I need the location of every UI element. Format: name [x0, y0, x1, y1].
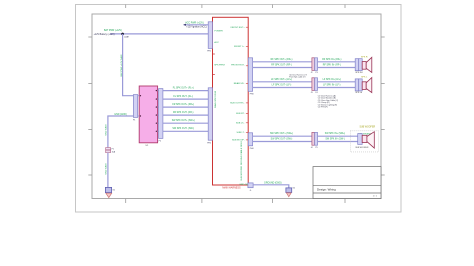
svg-text:PH4: PH4: [250, 148, 254, 150]
svg-text:PH1: PH1: [207, 50, 211, 52]
speaker SUB: [355, 132, 374, 150]
wire RF- left: [253, 67, 312, 69]
wire RF- right: [318, 67, 356, 69]
svg-text:SUB WOOF-: SUB WOOF-: [232, 139, 245, 141]
ground terminal G1: [105, 187, 115, 192]
svg-text:LF SPK OUT+ (LF+): LF SPK OUT+ (LF+): [271, 79, 292, 81]
wire LF- left: [253, 87, 312, 89]
connector P2 head unit right: [159, 89, 163, 139]
svg-text:MAIN SPK GD18: MAIN SPK GD18: [214, 90, 217, 108]
inline connector J2/P3 pair1: [311, 58, 318, 74]
title block: [313, 167, 381, 199]
svg-text:P4: P4: [315, 92, 317, 94]
svg-text:SW SPK OUT- (SW-): SW SPK OUT- (SW-): [271, 139, 293, 141]
svg-text:J4: J4: [311, 147, 313, 149]
svg-text:SPK RH: SPK RH: [355, 72, 363, 74]
svg-text:FL SPK OUT+ (FL+): FL SPK OUT+ (FL+): [173, 88, 194, 90]
svg-text:GND GD: GND GD: [239, 184, 248, 186]
node ACC arrow: [183, 24, 186, 26]
svg-text:GND GA18: GND GA18: [105, 163, 108, 175]
pin marks harness left edge: [213, 54, 215, 75]
wire LF+ right: [318, 81, 356, 83]
wire BAT horizontal: [110, 33, 208, 35]
svg-text:MAIN HARNESS: MAIN HARNESS: [222, 187, 241, 190]
wire FR+: [163, 106, 209, 108]
wire LF+ left: [253, 81, 312, 83]
wire FR-: [163, 114, 209, 116]
svg-text:P1: P1: [133, 120, 135, 122]
wire SW-: [163, 130, 209, 132]
sheet tick marks top: [126, 5, 345, 9]
svg-text:SUB WOOFER: SUB WOOFER: [355, 147, 369, 149]
connector PH2 harness 6pin left: [208, 88, 212, 140]
svg-text:SW SPK OUT+ (SW+): SW SPK OUT+ (SW+): [172, 120, 195, 122]
svg-text:FRONT L+: FRONT L+: [234, 46, 245, 48]
sheet tick marks bottom: [126, 199, 345, 203]
svg-text:LF SPK OUT- (LF-): LF SPK OUT- (LF-): [272, 85, 292, 87]
svg-text:FRONT RGT+: FRONT RGT+: [231, 27, 246, 29]
pin stubs P1: [138, 95, 140, 97]
svg-text:REAR SP+: REAR SP+: [234, 82, 246, 85]
wire SW- harness left: [253, 141, 312, 143]
speaker SPK2: [355, 77, 372, 94]
connector G terminal harness bottom right: [248, 183, 253, 188]
svg-text:PH2: PH2: [207, 142, 211, 144]
wire FL-: [163, 98, 209, 100]
wire RF+ left: [253, 61, 312, 63]
svg-text:FRONT RGT-: FRONT RGT-: [231, 65, 245, 67]
inline connector J3/P4 pair2: [311, 78, 318, 94]
ground symbol right: [286, 193, 291, 197]
wire ACC: [184, 24, 209, 26]
wire harness ground: [253, 185, 289, 188]
svg-text:SUB WOOFER GROUND CABLE GD18: SUB WOOFER GROUND CABLE GD18: [240, 141, 243, 181]
svg-text:GND GA18: GND GA18: [105, 124, 108, 136]
svg-text:PH3: PH3: [250, 93, 254, 95]
svg-text:SUB WOOFER: SUB WOOFER: [359, 127, 375, 129]
subwoofer block outline: [350, 131, 378, 152]
speaker SPK1: [355, 56, 372, 73]
connector PH3 harness right top: [248, 58, 252, 92]
wire FL+: [163, 90, 209, 92]
svg-text:RF SPK OUT- (RF-): RF SPK OUT- (RF-): [271, 65, 292, 67]
head unit U1: [139, 86, 157, 143]
harness box X1: [213, 17, 249, 185]
svg-text:LF SPK IN+ (LF+): LF SPK IN+ (LF+): [323, 79, 342, 81]
wire BAT drop to head unit: [123, 34, 136, 96]
connector P1 head unit left: [133, 95, 137, 118]
wire head unit ground: [108, 116, 136, 147]
wire SW+ harness left: [253, 135, 312, 137]
svg-text:ACC: ACC: [214, 41, 219, 44]
svg-text:BAT PWR (+12V): BAT PWR (+12V): [104, 29, 122, 32]
wire fuse to ground terminal: [107, 153, 109, 188]
svg-text:G2: G2: [293, 187, 295, 189]
svg-text:FR SPK OUT- (FR-): FR SPK OUT- (FR-): [173, 112, 194, 114]
svg-text:LF SPK IN- (LF-): LF SPK IN- (LF-): [323, 85, 340, 87]
svg-text:SPK R: SPK R: [361, 56, 368, 58]
svg-text:RF SPK IN- (RF-): RF SPK IN- (RF-): [323, 65, 341, 67]
svg-text:SUB LT+: SUB LT+: [236, 122, 245, 124]
pin dots P2: [156, 90, 157, 132]
wire SW+ right: [318, 135, 358, 137]
svg-text:SW SPK IN- (SW-): SW SPK IN- (SW-): [325, 139, 344, 141]
svg-text:P5: P5: [315, 147, 317, 149]
svg-text:SW SPK OUT+ (SW+): SW SPK OUT+ (SW+): [270, 133, 293, 135]
svg-text:SUB OUT RT+: SUB OUT RT+: [230, 102, 245, 104]
svg-text:+12V Battery (+12V): +12V Battery (+12V): [94, 33, 115, 36]
svg-text:GROUND (GND): GROUND (GND): [264, 182, 282, 184]
svg-text:G1: G1: [112, 189, 115, 191]
connector PH4 harness right sub: [248, 133, 252, 146]
wire RF+ right: [318, 61, 356, 63]
svg-text:+12V Ignition (ACC): +12V Ignition (ACC): [186, 26, 207, 29]
svg-text:SPK L: SPK L: [361, 77, 368, 79]
pin stubs P2: [158, 91, 159, 132]
svg-text:SW SPK IN+ (SW+): SW SPK IN+ (SW+): [325, 133, 346, 135]
svg-text:P2: P2: [159, 140, 161, 142]
svg-text:SPK LH: SPK LH: [355, 92, 362, 94]
pin marks harness right edge: [246, 27, 248, 140]
svg-text:P3: P3: [315, 72, 317, 74]
sheet inner border: [92, 14, 381, 199]
wire LF- right: [318, 87, 356, 89]
svg-text:SW SPK OUT- (SW-): SW SPK OUT- (SW-): [172, 128, 194, 130]
svg-text:RF SPK OUT+ (RF+): RF SPK OUT+ (RF+): [271, 59, 293, 61]
node junction BAT: [121, 33, 124, 36]
inline connector J4/P5 sub: [311, 132, 318, 149]
svg-text:SUB RT-: SUB RT-: [236, 113, 245, 115]
svg-text:SPK FRNT: SPK FRNT: [214, 65, 225, 67]
fuse F1: [106, 148, 116, 154]
wire SW+: [163, 122, 209, 124]
svg-text:J2: J2: [311, 72, 313, 74]
svg-text:GND (GND): GND (GND): [114, 114, 127, 116]
note block 6 lines: [318, 95, 339, 109]
svg-text:F1: F1: [112, 149, 114, 151]
svg-text:Front Spk cable 2 ft: Front Spk cable 2 ft: [289, 76, 306, 79]
svg-text:FR SPK OUT+ (FR+): FR SPK OUT+ (FR+): [172, 104, 194, 106]
svg-text:J3: J3: [311, 92, 313, 94]
svg-text:FL SPK OUT- (FL-): FL SPK OUT- (FL-): [173, 96, 193, 98]
ground symbol left: [106, 193, 112, 197]
net labels inside right aligned: [230, 27, 245, 141]
svg-text:ACC PWR (+12V): ACC PWR (+12V): [185, 21, 204, 24]
connector PLT1 harness top left: [208, 22, 212, 49]
svg-text:CD PTB (F): CD PTB (F): [318, 107, 328, 109]
svg-text:RF SPK IN+ (RF+): RF SPK IN+ (RF+): [322, 59, 341, 61]
svg-text:POWER: POWER: [214, 31, 223, 33]
svg-text:BAT PWR +12V GA18: BAT PWR +12V GA18: [120, 54, 123, 77]
sheet outer border: [76, 5, 402, 213]
svg-text:SUB LT-: SUB LT-: [236, 132, 244, 134]
wire SW- right: [318, 141, 358, 143]
ground terminal G2: [286, 187, 295, 192]
sheet tick marks right: [381, 37, 385, 175]
sheet tick marks left: [88, 37, 92, 175]
svg-text:Design: Wiring: Design: Wiring: [317, 187, 336, 191]
